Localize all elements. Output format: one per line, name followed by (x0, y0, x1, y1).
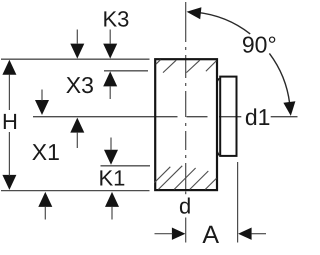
socket rectangle right (220, 77, 236, 156)
dimension line bottom (level of fitting bottom) (1, 190, 150, 192)
hatch top 1 (163, 60, 176, 72)
svg-text:K1: K1 (99, 165, 126, 190)
main body rectangle (cross-section) (155, 59, 217, 190)
extension line right of A dimension (237, 162, 239, 243)
H dimension arrow down (2, 175, 16, 190)
A dimension left arrow (points right) (172, 228, 186, 240)
90 degree arc lower segment (269, 53, 289, 103)
H dimension arrow up (2, 60, 16, 75)
svg-text:X3: X3 (66, 72, 94, 98)
hatch bottom 5 (205, 178, 216, 189)
X3 top arrow (down onto top line) (70, 44, 84, 59)
X1 bottom arrow (up onto bottom line) (38, 192, 52, 207)
K1 arrow down (104, 150, 118, 165)
dimension line X3/K3 lower (104, 70, 148, 72)
90 degree arc upper segment (197, 12, 251, 34)
centerline extension at A dimension (185, 218, 187, 243)
centerline dash below body (185, 192, 187, 195)
svg-text:d1: d1 (245, 104, 271, 130)
hatch bottom 1 (154, 167, 170, 183)
horizontal axis line d1 (left of label) (33, 116, 241, 118)
svg-text:H: H (2, 109, 18, 134)
hatch top corner tick (156, 60, 161, 65)
gasket wedge bottom (216, 148, 220, 156)
arc arrowhead top (points left at centerline) (187, 7, 202, 19)
K3 arrow down (103, 44, 117, 59)
svg-text:K3: K3 (103, 6, 130, 31)
svg-text:A: A (202, 221, 219, 249)
hatch bottom 2 (158, 166, 182, 190)
X1 top arrow (down onto axis line) (35, 100, 49, 115)
K1 arrow up (105, 192, 119, 207)
vertical centerline (dash-dot) (185, 2, 187, 189)
K3 arrow up (103, 71, 117, 86)
horizontal axis line d1 (right of label) (271, 116, 298, 118)
hatch bottom 3 (174, 168, 195, 189)
X3 bottom arrow (up onto axis line) (70, 118, 84, 133)
A dimension right arrow (points left) (238, 228, 252, 240)
gasket wedge top (216, 78, 220, 85)
hatch top 3 (206, 61, 217, 72)
svg-text:d: d (179, 193, 191, 218)
svg-text:X1: X1 (32, 139, 60, 165)
svg-text:90°: 90° (242, 31, 277, 57)
dimension line K1 upper (101, 165, 151, 167)
hatch top 2 (186, 60, 199, 72)
hatch bottom 4 (190, 171, 209, 189)
dimension line top (level of fitting top) (1, 58, 150, 60)
arc arrowhead bottom (points down at d1 line) (283, 101, 295, 116)
